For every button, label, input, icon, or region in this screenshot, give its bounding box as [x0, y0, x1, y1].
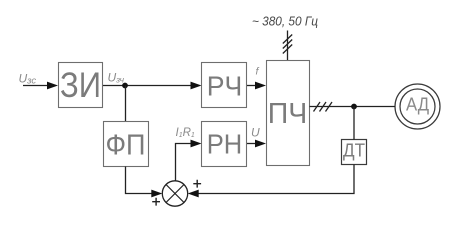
- block ZI (ЗИ ramp generator): [59, 63, 103, 108]
- wire RN to PCh: [247, 140, 266, 148]
- wire DT down and left to summing junction: [188, 165, 354, 198]
- wire node B down to DT: [353, 107, 355, 140]
- svg-text:U: U: [251, 126, 260, 140]
- wire Uzs input to ZI: [23, 82, 58, 90]
- block PCh (ПЧ frequency converter): [267, 61, 310, 166]
- plus sign left input: [152, 198, 160, 206]
- svg-text:РН: РН: [207, 129, 243, 160]
- wire RCh to PCh: [247, 82, 266, 90]
- wire supply down to PCh: [287, 31, 289, 61]
- block FP (ФП function converter): [104, 122, 149, 167]
- svg-text:АД: АД: [406, 95, 429, 115]
- hatch marks on supply wire: [283, 35, 292, 54]
- wire node A down to FP: [125, 86, 127, 122]
- svg-text:РЧ: РЧ: [207, 71, 243, 102]
- summing junction: [162, 181, 187, 206]
- block RCh (РЧ frequency regulator): [202, 63, 247, 108]
- wire ZI to RCh: [103, 82, 202, 90]
- block DT (ДТ current sensor): [342, 140, 367, 165]
- block RN (РН voltage regulator): [202, 122, 247, 167]
- junction dot node A: [122, 83, 128, 89]
- svg-text:ФП: ФП: [106, 130, 146, 162]
- plus sign right input: [193, 180, 201, 188]
- wire PCh to motor AD: [310, 106, 396, 108]
- svg-text:ДТ: ДТ: [343, 141, 365, 161]
- wire summing junction up to RN: [176, 140, 202, 181]
- svg-text:~ 380, 50 Гц: ~ 380, 50 Гц: [252, 14, 318, 29]
- svg-text:ЗИ: ЗИ: [60, 66, 101, 105]
- hatch marks on motor wire: [314, 102, 333, 112]
- motor AD (АД induction motor): [395, 84, 440, 129]
- junction dot node B: [351, 104, 357, 110]
- wire FP down and right to summing junction: [126, 167, 163, 198]
- svg-text:ПЧ: ПЧ: [268, 98, 308, 130]
